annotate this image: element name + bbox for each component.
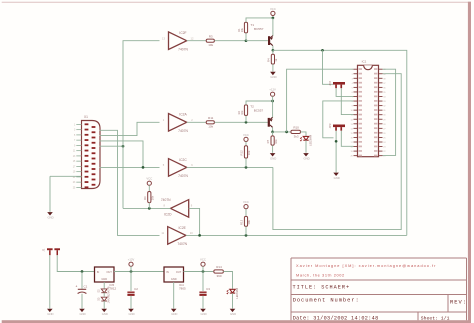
node bbox=[148, 207, 151, 210]
svg-text:IC2A: IC2A bbox=[179, 113, 187, 117]
wire bbox=[100, 130, 160, 235]
buffer IC2E bbox=[161, 226, 193, 246]
svg-text:IC2C: IC2C bbox=[179, 158, 187, 162]
svg-text:IN: IN bbox=[97, 270, 100, 274]
buffer IC2A bbox=[163, 113, 194, 133]
svg-text:7407N: 7407N bbox=[178, 47, 188, 51]
jumper JP2 bbox=[328, 81, 345, 89]
frame border top bbox=[2, 1, 471, 3]
resistor R3 bbox=[206, 34, 214, 47]
wire bbox=[323, 101, 354, 138]
wire bbox=[305, 140, 307, 153]
diode D3 bbox=[97, 294, 110, 303]
svg-text:LED5MM: LED5MM bbox=[235, 288, 239, 299]
svg-text:JP2: JP2 bbox=[328, 81, 332, 86]
wire bbox=[202, 296, 204, 309]
node bbox=[202, 270, 205, 273]
svg-text:REV:: REV: bbox=[450, 299, 467, 305]
svg-text:GND: GND bbox=[230, 312, 236, 316]
supply +12V bbox=[269, 88, 276, 97]
wire bbox=[202, 266, 204, 271]
node bbox=[335, 140, 338, 143]
transistor T2 bbox=[250, 105, 273, 128]
svg-text:BC557: BC557 bbox=[254, 109, 264, 113]
wire bbox=[223, 272, 232, 289]
wire bbox=[246, 101, 273, 105]
svg-text:March, the 31th 2002: March, the 31th 2002 bbox=[296, 272, 345, 277]
wire bbox=[187, 166, 273, 168]
diode D2 bbox=[97, 286, 110, 295]
svg-text:IC2F: IC2F bbox=[179, 31, 186, 35]
svg-text:VCC: VCC bbox=[270, 7, 276, 11]
node bbox=[198, 234, 201, 237]
wire bbox=[272, 132, 274, 136]
wire bbox=[232, 293, 234, 308]
svg-text:7407N: 7407N bbox=[177, 242, 187, 246]
svg-text:X1: X1 bbox=[84, 115, 88, 119]
svg-text:10k: 10k bbox=[208, 43, 213, 47]
resistor R10 bbox=[291, 126, 301, 139]
wire T1 collector to IC bbox=[273, 50, 407, 235]
ground bbox=[333, 173, 340, 180]
buffer IC2F bbox=[162, 31, 194, 51]
svg-text:GND: GND bbox=[200, 312, 206, 316]
node bbox=[130, 270, 133, 273]
svg-text:C1: C1 bbox=[83, 285, 87, 289]
wire bbox=[246, 40, 268, 42]
supply VCC bbox=[146, 177, 152, 186]
node bbox=[321, 49, 324, 52]
resistor R13 bbox=[240, 216, 252, 226]
svg-text:Xavier Montagne [XM]: xavier.: Xavier Montagne [XM]: xavier.montagne@wa… bbox=[296, 263, 436, 268]
node bbox=[245, 121, 248, 124]
wire bbox=[272, 145, 274, 153]
wire bbox=[336, 88, 353, 96]
node bbox=[245, 234, 248, 237]
ground bbox=[270, 153, 277, 160]
node bbox=[285, 131, 288, 134]
wire bbox=[81, 272, 83, 289]
svg-text:GND: GND bbox=[171, 312, 177, 316]
wire bbox=[272, 46, 274, 51]
connector J1 bbox=[42, 248, 61, 255]
svg-text:R14: R14 bbox=[216, 265, 222, 269]
supply VCC bbox=[243, 133, 249, 142]
buffer IC2C bbox=[163, 158, 194, 178]
svg-text:10k: 10k bbox=[151, 195, 155, 200]
svg-text:3k3: 3k3 bbox=[294, 134, 299, 138]
resistor R14 bbox=[214, 265, 224, 278]
svg-text:GND: GND bbox=[334, 176, 340, 180]
wire bbox=[383, 69, 396, 155]
svg-text:LED3MM: LED3MM bbox=[308, 135, 312, 146]
wire bbox=[130, 296, 132, 309]
svg-text:GND: GND bbox=[47, 312, 53, 316]
wire bbox=[103, 282, 105, 288]
svg-text:JP3: JP3 bbox=[328, 123, 332, 128]
LED D4 bbox=[226, 288, 239, 299]
wire bbox=[341, 131, 353, 147]
svg-text:Date: 31/03/2002 14:02:48: Date: 31/03/2002 14:02:48 bbox=[293, 315, 379, 321]
wire loop to IC pin bbox=[273, 74, 401, 230]
svg-text:VCC: VCC bbox=[200, 258, 206, 262]
supply +12V bbox=[128, 258, 135, 267]
node feedback junction bbox=[122, 145, 125, 148]
connector X1 bbox=[73, 115, 100, 189]
svg-text:IC1: IC1 bbox=[362, 60, 367, 64]
ground bbox=[101, 309, 108, 316]
svg-text:7407N: 7407N bbox=[178, 129, 188, 133]
svg-text:1N4148: 1N4148 bbox=[108, 294, 111, 303]
wire bbox=[245, 158, 247, 167]
wire bbox=[323, 50, 334, 84]
svg-text:IN: IN bbox=[166, 270, 169, 274]
LED D1 bbox=[300, 135, 313, 146]
svg-text:+12V: +12V bbox=[269, 88, 276, 92]
svg-text:R12: R12 bbox=[240, 150, 244, 156]
svg-text:R3: R3 bbox=[209, 34, 213, 38]
svg-text:10k: 10k bbox=[240, 110, 244, 115]
wire T2 collector to IC pin 1 bbox=[287, 69, 354, 132]
wire bbox=[148, 203, 150, 209]
svg-text:C3: C3 bbox=[206, 287, 210, 291]
svg-text:Sheet: 1/1: Sheet: 1/1 bbox=[421, 315, 450, 321]
wire bbox=[272, 64, 274, 72]
wire bbox=[215, 40, 247, 42]
wire bbox=[245, 209, 247, 217]
wire bbox=[272, 101, 274, 118]
wire bbox=[100, 122, 160, 135]
svg-text:10k: 10k bbox=[247, 220, 251, 225]
frame border right band bbox=[468, 2, 471, 323]
ground bbox=[230, 309, 237, 316]
svg-text:1N4148: 1N4148 bbox=[108, 286, 111, 295]
svg-text:R13: R13 bbox=[240, 219, 244, 225]
wire bbox=[130, 266, 132, 271]
wire bbox=[148, 185, 150, 191]
node bbox=[245, 39, 248, 42]
svg-text:7407N: 7407N bbox=[161, 198, 171, 202]
title block bbox=[291, 258, 467, 320]
wire bbox=[272, 96, 274, 101]
svg-text:BC557: BC557 bbox=[254, 27, 264, 31]
wire bbox=[335, 131, 337, 173]
wire bbox=[103, 301, 105, 309]
svg-text:J1: J1 bbox=[42, 248, 46, 251]
IC U1 DIP-40 bbox=[350, 60, 386, 158]
ground bbox=[47, 212, 54, 219]
svg-text:VCC: VCC bbox=[243, 133, 249, 137]
wire bbox=[130, 272, 132, 292]
svg-text:7805: 7805 bbox=[179, 287, 186, 291]
wire bbox=[100, 145, 124, 147]
svg-text:OUT: OUT bbox=[106, 270, 112, 274]
supply VCC bbox=[270, 7, 276, 16]
svg-text:GND: GND bbox=[101, 277, 107, 281]
node bbox=[271, 100, 274, 103]
wire output rail bbox=[186, 234, 407, 236]
ground bbox=[200, 309, 207, 316]
svg-text:10k: 10k bbox=[274, 139, 278, 144]
resistor R11 bbox=[206, 116, 214, 129]
voltage regulator IC5 7812 bbox=[95, 267, 117, 291]
svg-text:VCC: VCC bbox=[146, 177, 152, 181]
wire bbox=[202, 272, 204, 292]
svg-text:+: + bbox=[75, 285, 77, 289]
capacitor C2 bbox=[127, 287, 138, 296]
frame border bottom band bbox=[2, 320, 471, 323]
node bbox=[271, 131, 274, 134]
svg-text:GND: GND bbox=[102, 312, 108, 316]
wire bbox=[49, 255, 51, 308]
node bbox=[142, 166, 145, 169]
ground bbox=[79, 309, 86, 316]
svg-text:IC2E: IC2E bbox=[179, 226, 187, 230]
wire bbox=[187, 121, 206, 123]
node bbox=[272, 17, 275, 20]
wire bbox=[81, 294, 83, 309]
svg-text:10k: 10k bbox=[240, 27, 244, 32]
wire bbox=[245, 226, 247, 235]
svg-text:GND: GND bbox=[171, 277, 177, 281]
ground bbox=[171, 309, 178, 316]
resistor R6 bbox=[143, 192, 155, 203]
svg-text:10k: 10k bbox=[247, 150, 251, 155]
svg-text:GND: GND bbox=[270, 75, 276, 79]
jumper JP3 bbox=[328, 123, 345, 131]
ground bbox=[47, 309, 54, 316]
svg-text:390: 390 bbox=[216, 274, 221, 278]
wire bbox=[245, 33, 247, 41]
transistor T1 bbox=[251, 23, 274, 46]
resistor R4 bbox=[267, 54, 279, 64]
wire bbox=[57, 255, 94, 271]
capacitor C1 bbox=[75, 285, 87, 294]
svg-text:GND: GND bbox=[270, 157, 276, 161]
wire bbox=[100, 166, 160, 168]
svg-text:C2: C2 bbox=[134, 287, 138, 291]
svg-text:R7: R7 bbox=[266, 139, 270, 143]
resistor R1 bbox=[237, 22, 247, 33]
svg-text:R10: R10 bbox=[293, 126, 299, 130]
supply VCC bbox=[200, 258, 206, 267]
wire bbox=[123, 207, 171, 209]
supply VCC bbox=[243, 200, 249, 209]
voltage regulator IC4 7805 bbox=[164, 267, 186, 291]
wire bbox=[301, 132, 307, 137]
wire bbox=[246, 18, 273, 22]
wire bbox=[189, 208, 200, 235]
wire bbox=[272, 50, 274, 54]
wire bbox=[184, 271, 214, 273]
resistor R12 bbox=[240, 146, 252, 158]
ground bbox=[128, 309, 135, 316]
svg-text:R4: R4 bbox=[267, 58, 271, 62]
wire bbox=[49, 176, 51, 212]
node bbox=[272, 49, 275, 52]
wire bbox=[245, 142, 247, 146]
wire bbox=[272, 128, 274, 132]
svg-text:7407N: 7407N bbox=[178, 174, 188, 178]
svg-text:TITLE: SCHAER+: TITLE: SCHAER+ bbox=[293, 285, 351, 291]
resistor R7 bbox=[266, 136, 278, 145]
buffer IC2D bbox=[161, 198, 193, 217]
resistor R2 bbox=[237, 105, 247, 116]
wire bbox=[215, 121, 268, 123]
svg-text:GND: GND bbox=[128, 312, 134, 316]
svg-text:10k: 10k bbox=[208, 125, 213, 129]
wire bbox=[341, 88, 353, 114]
svg-text:R6: R6 bbox=[143, 196, 147, 200]
wire bbox=[123, 41, 160, 209]
svg-text:+12V: +12V bbox=[128, 258, 135, 262]
wire bbox=[273, 131, 291, 133]
node bbox=[81, 270, 84, 273]
wire bbox=[103, 293, 105, 297]
wire bbox=[173, 282, 175, 309]
svg-text:Document Number:: Document Number: bbox=[293, 298, 360, 304]
svg-text:VCC: VCC bbox=[243, 200, 249, 204]
svg-text:IC2D: IC2D bbox=[164, 213, 172, 217]
svg-text:OUT: OUT bbox=[176, 270, 182, 274]
node bbox=[245, 166, 248, 169]
wire bbox=[100, 141, 144, 168]
svg-text:GND: GND bbox=[79, 312, 85, 316]
wire bbox=[245, 116, 247, 123]
svg-text:GND: GND bbox=[47, 216, 53, 220]
svg-text:R11: R11 bbox=[208, 116, 214, 120]
ground bbox=[303, 153, 310, 160]
wire bbox=[187, 40, 206, 42]
wire bbox=[114, 271, 164, 273]
capacitor C3 bbox=[199, 287, 210, 296]
wire bbox=[50, 175, 82, 177]
ground bbox=[270, 72, 277, 79]
wire bbox=[272, 18, 274, 36]
svg-text:GND: GND bbox=[303, 157, 309, 161]
